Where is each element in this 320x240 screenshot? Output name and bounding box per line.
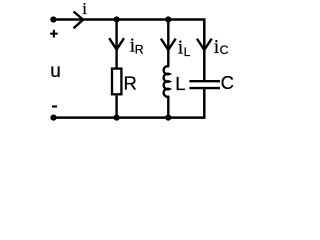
node terminal top-left	[50, 16, 56, 22]
svg-text:R: R	[124, 73, 137, 94]
wire L branch upper	[167, 20, 169, 67]
wire arrow i on top rail	[74, 12, 84, 29]
wire top rail + capacitor upper branch	[53, 20, 204, 81]
svg-text:u: u	[50, 61, 61, 82]
node terminal bottom-left	[50, 115, 56, 121]
node junction bottom L	[165, 115, 171, 121]
node junction top L	[165, 16, 171, 22]
svg-text:i: i	[82, 0, 87, 18]
node junction top R	[114, 16, 120, 22]
label -	[52, 105, 57, 107]
svg-text:L: L	[175, 73, 185, 94]
node junction bottom R	[114, 115, 120, 121]
wire arrow iL	[161, 39, 176, 50]
wire arrow iR	[109, 38, 124, 49]
capacitor C plate top	[189, 80, 220, 82]
inductor L coil	[164, 66, 170, 97]
wire bottom rail + capacitor lower branch	[54, 89, 205, 118]
svg-text:R: R	[135, 42, 144, 56]
capacitor C plate bottom	[189, 87, 220, 89]
wire arrow iC	[197, 39, 212, 50]
svg-text:L: L	[184, 45, 191, 59]
wire L branch lower	[167, 96, 169, 117]
svg-text:C: C	[220, 43, 229, 57]
svg-text:C: C	[221, 72, 234, 93]
resistor R	[112, 69, 121, 95]
label +	[50, 30, 58, 38]
wire R branch lower	[115, 95, 117, 117]
wire R branch upper	[115, 20, 117, 68]
